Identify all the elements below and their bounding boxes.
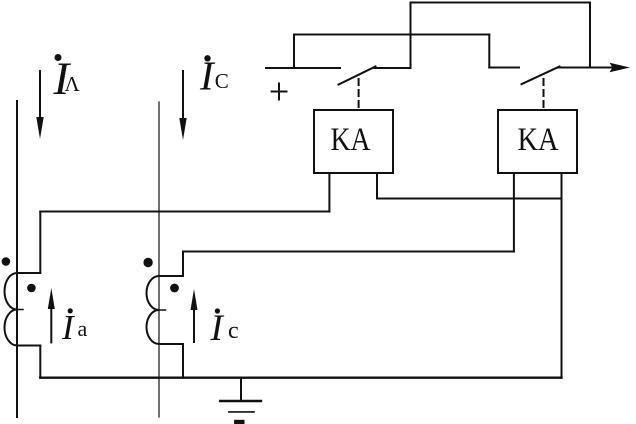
wire branch up to rail <box>293 35 295 69</box>
dashed link contact KA2 <box>543 79 545 110</box>
label ic <box>210 308 239 349</box>
CT TAc top stub <box>159 275 183 277</box>
svg-text:KA: KA <box>331 122 371 158</box>
current arrow iA <box>36 71 43 139</box>
wire rail to contact 2 <box>294 34 489 36</box>
wire KA1 pin1 <box>328 173 330 212</box>
current arrow iC <box>179 71 186 140</box>
wire contact 1 riser <box>410 3 412 69</box>
CT TAa top lead <box>39 212 41 274</box>
wire into contact 2 <box>489 67 519 69</box>
current arrow ia <box>48 288 55 342</box>
CT TAa bottom lead <box>39 346 41 378</box>
wire KA2 pin1 <box>513 173 515 252</box>
CT TAc bottom lead <box>182 344 184 378</box>
wire rail drop to contact 2 <box>488 35 490 68</box>
wire contact 1 output <box>375 67 411 69</box>
CT TAc top lead <box>182 252 184 277</box>
current arrow ic <box>191 289 198 342</box>
label ia <box>61 308 88 347</box>
relay KA1 box <box>314 110 393 173</box>
svg-text:a: a <box>78 316 88 341</box>
phase C bus <box>158 102 160 417</box>
svg-text:Λ: Λ <box>65 72 81 96</box>
wire top rail drop <box>589 3 591 68</box>
trip output arrow <box>590 63 630 72</box>
wire KA1 pin2 to KA2 pin2 <box>377 198 562 200</box>
CT TAc polarity dot secondary <box>170 284 179 293</box>
wire positive bus <box>266 67 340 69</box>
CT TAa polarity dot secondary <box>27 284 36 293</box>
wire bottom return <box>40 377 561 379</box>
svg-text:C: C <box>215 69 229 93</box>
plus polarity label <box>272 84 287 100</box>
wire KA1 pin1 to CT A <box>40 211 329 213</box>
ground <box>220 378 261 424</box>
label iC <box>199 53 229 99</box>
CT TAa top stub <box>17 272 40 274</box>
dashed link contact KA1 <box>358 79 360 110</box>
CT TAa bottom stub <box>17 345 40 347</box>
label iA <box>53 53 81 105</box>
CT TAa winding mid tick <box>17 309 23 311</box>
CT TAc winding mid tick <box>159 309 166 311</box>
CT TAc polarity dot primary <box>143 258 152 267</box>
CT TAc secondary winding <box>146 276 159 344</box>
svg-text:KA: KA <box>518 122 559 158</box>
contact KA2 blade <box>522 67 560 85</box>
svg-text:c: c <box>228 318 239 344</box>
wire contact 2 output <box>559 67 590 69</box>
wire KA1 pin2 <box>376 173 378 199</box>
wire KA2 pin1 to CT C <box>183 251 514 253</box>
wire KA2 pin2 down <box>561 173 563 378</box>
contact KA1 blade <box>339 67 376 85</box>
CT TAc bottom stub <box>159 343 183 345</box>
CT TAa polarity dot primary <box>2 257 11 266</box>
svg-text:I: I <box>210 308 225 349</box>
CT TAa secondary winding <box>5 273 18 346</box>
relay KA2 box <box>498 110 577 173</box>
phase A bus <box>16 101 18 417</box>
wire top rail <box>411 2 591 4</box>
